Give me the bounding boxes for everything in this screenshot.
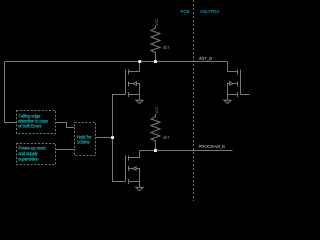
wire INIT_B to falling-edge detector (left leg) (5, 62, 17, 123)
wire PROGRAM_B horizontal (140, 150, 233, 152)
junction PROGRAM_B / R2 (154, 149, 157, 152)
wire hold box output to gate node (96, 137, 113, 139)
resistor R2 4k7 pull-up on PROGRAM_B (151, 114, 160, 151)
junction gate node (111, 136, 114, 139)
ground (Q1 source) (136, 100, 143, 103)
svg-text:and supply: and supply (18, 151, 38, 156)
wire INIT_B into FPGA (right leg down) (228, 62, 238, 72)
ground (Q2 source) (136, 187, 143, 190)
label PCB (181, 9, 190, 14)
svg-text:Artix FPGA: Artix FPGA (200, 9, 219, 14)
transistor Q3 (FPGA internal on INIT_B, mirrored) (228, 70, 241, 101)
svg-text:4k7: 4k7 (163, 45, 171, 50)
wire Q3 gate (to FPGA logic) (241, 94, 250, 96)
wire Q1 gate to hold node (113, 95, 126, 138)
label Artix FPGA (200, 9, 219, 14)
box: Falling edge detection in case of Soft Errors (17, 111, 56, 134)
VCC (bottom pull-up supply) (155, 106, 159, 114)
net INIT_B label (199, 56, 213, 61)
box: Power-up reset and supply supervision (17, 144, 56, 165)
net PROGRAM_B label (199, 144, 226, 149)
wire INIT_B horizontal (5, 61, 228, 63)
svg-text:VCC: VCC (155, 106, 159, 114)
svg-text:4k7: 4k7 (163, 135, 171, 140)
junction INIT_B / Q1 drain (138, 60, 141, 63)
wire gate node down to Q2 gate (113, 138, 126, 182)
svg-text:PCB: PCB (181, 9, 190, 14)
transistor Q1 (PCB driver on INIT_B) (126, 62, 140, 100)
resistor R1 4k7 pull-up on INIT_B (151, 26, 160, 62)
VCC (top pull-up supply) (155, 18, 159, 26)
svg-text:100ms: 100ms (77, 139, 91, 144)
svg-text:supervision: supervision (18, 156, 39, 161)
junction INIT_B / R1 (154, 60, 157, 63)
svg-text:INIT_B: INIT_B (199, 56, 213, 61)
wire power-up-reset box to hold box (56, 149, 75, 151)
svg-text:Power-up reset: Power-up reset (18, 146, 46, 151)
svg-text:VCC: VCC (155, 18, 159, 26)
box: Hold for 100ms (75, 123, 96, 156)
transistor Q2 (PCB driver on PROGRAM_B) (126, 151, 140, 188)
wire falling-edge box to hold box (56, 123, 75, 128)
ground (Q3 source) (224, 100, 231, 103)
value label 4k7 (R1) (163, 45, 171, 50)
svg-text:of Soft Errors: of Soft Errors (18, 124, 41, 129)
value label 4k7 (R2) (163, 135, 171, 140)
svg-text:PROGRAM_B: PROGRAM_B (199, 144, 226, 149)
PCB / FPGA boundary dashed line (193, 0, 195, 201)
